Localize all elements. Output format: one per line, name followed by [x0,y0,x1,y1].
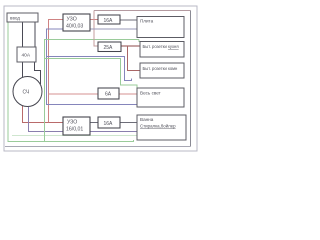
wire pink from 6А to light box [119,93,137,95]
box Весь свет [137,88,184,107]
wire loop top [94,10,191,12]
svg-text:40А: 40А [22,53,31,59]
svg-text:16А: 16А [104,18,114,24]
wire red from meter bottom to УЗО2 [23,106,64,123]
box УЗО2 16/0,01 [63,117,90,135]
svg-text:16/0,01: 16/0,01 [66,127,83,133]
wire ввод to 40А left [22,22,24,47]
svg-text:Ванна: Ванна [140,117,154,122]
box УЗО1 40/0,03 [63,14,90,31]
wire pink branch y=93 to 6А [49,93,99,95]
wire red drop to room outlets [128,46,141,71]
svg-text:Быт. розетки кухня: Быт. розетки кухня [143,44,179,49]
wire maroon 25А to kitchen outlets [121,45,140,47]
wire faint green horizontal y=135 [12,135,137,137]
svg-text:Плита: Плита [140,19,154,24]
wire red riser x=94 down to 25А [94,11,98,47]
svg-text:СЧ: СЧ [23,90,30,96]
wire blue УЗО1 out to stove [90,28,137,30]
box Быт. розетки кухня [140,42,184,58]
wire purple from meter bottom to bath box [29,107,138,132]
border frame [4,6,197,151]
wire gray 16А to stove [120,19,137,21]
wire gray УЗО2 to 16А bottom [90,122,98,124]
wire green from ввод down left side and along bottom [8,22,134,142]
box 40А [17,47,36,62]
wire 40А to meter right (step) [35,62,41,84]
svg-text:УЗО: УЗО [67,120,77,126]
wire loop right side [190,11,192,147]
meter СЧ circle [13,77,42,107]
svg-text:Быт. розетки комн: Быт. розетки комн [143,66,179,71]
wire loop bottom [5,146,191,148]
wire red riser x=48 [49,20,64,123]
svg-text:40/0,03: 40/0,03 [66,24,83,30]
wire green tick down to kitchen box corner [138,40,140,43]
box Быт. розетки комн [140,63,184,78]
box ввод [7,13,38,22]
svg-text:6А: 6А [105,92,112,98]
wire red УЗО1 out to 16А [90,19,98,21]
svg-text:Стиралка,бойлер: Стиралка,бойлер [140,124,176,129]
svg-text:25А: 25А [104,45,114,51]
wire 40А to meter left [22,62,24,78]
wire ввод to 40А right [34,22,36,47]
box 25А [98,42,121,52]
wire green riser x=44 [45,40,140,142]
svg-text:Весь свет: Весь свет [140,91,162,96]
box Плита [137,17,184,38]
box 16А top [98,15,120,24]
wire blue riser x=46 [47,29,138,105]
box 16А bottom [98,117,120,128]
wire green branch to light box [45,59,138,89]
box 6А [98,88,119,99]
wire blue branch hook to room outlets bottom [47,57,132,81]
svg-text:УЗО: УЗО [67,17,77,23]
box Ванна Стиралка,бойлер [137,115,186,140]
svg-text:16А: 16А [104,121,114,127]
svg-text:ввод: ввод [10,16,20,21]
wire gray 16А bottom to bath box [120,122,137,124]
